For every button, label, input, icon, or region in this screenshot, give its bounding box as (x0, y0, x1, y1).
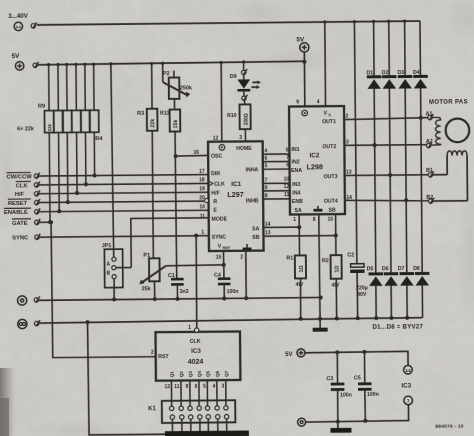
wire IC1 pin2 ground (240, 251, 248, 301)
svg-text:9: 9 (296, 99, 299, 105)
svg-text:100n: 100n (367, 392, 379, 398)
diode D7 BYV27 (398, 266, 415, 320)
jumper JP1 (100, 62, 131, 302)
svg-text:12: 12 (284, 184, 290, 190)
svg-text:12: 12 (213, 136, 219, 142)
svg-text:1: 1 (201, 230, 204, 236)
terminal 5V right (296, 36, 309, 52)
IC1 left pin numbers (193, 150, 205, 236)
svg-text:11: 11 (284, 192, 290, 198)
ground symbol main (313, 328, 328, 332)
capacitor C5 100n (354, 350, 379, 423)
svg-text:B: B (106, 271, 110, 277)
svg-text:Q3: Q3 (188, 371, 193, 378)
svg-text:100n: 100n (340, 393, 352, 399)
resistor array R9 (6x22k) label (17, 103, 103, 143)
svg-text:SA: SA (252, 226, 260, 232)
svg-text:4: 4 (264, 148, 267, 154)
capacitor C4 100n (214, 265, 239, 301)
terminal B1 (426, 168, 434, 178)
svg-text:Q7: Q7 (224, 370, 229, 377)
svg-text:D1...D8 = BYV27: D1...D8 = BYV27 (372, 323, 423, 330)
svg-text:DIR: DIR (211, 171, 220, 177)
wire SYNC to IC3 CLK (194, 234, 199, 329)
svg-text:R10: R10 (227, 113, 237, 119)
diode D8 BYV27 (413, 266, 430, 318)
diode D3 BYV27 (397, 21, 414, 272)
svg-text:1: 1 (188, 325, 191, 331)
svg-text:OUT2: OUT2 (322, 144, 336, 150)
svg-text:K1: K1 (148, 406, 156, 412)
svg-text:SA: SA (294, 208, 302, 214)
inductor motor winding A (431, 117, 441, 145)
svg-text:V: V (218, 244, 222, 250)
terminal 0 (logic ground) (17, 296, 39, 305)
svg-text:5: 5 (265, 163, 268, 169)
svg-text:4W: 4W (295, 282, 305, 288)
input ENABLE to IC1 E (4, 207, 209, 217)
wire MODE line from JP1 (131, 218, 209, 268)
wires pull-ups to input lines (47, 63, 97, 225)
svg-text:MODE: MODE (211, 216, 227, 222)
capacitor C2 220u 40V (345, 20, 368, 320)
svg-text:1Ω: 1Ω (299, 265, 305, 272)
wire OUT1 to A1 (344, 113, 428, 121)
terminal 3...40V supply (8, 13, 37, 31)
svg-text:R2: R2 (322, 258, 329, 264)
svg-text:4: 4 (213, 383, 216, 389)
wires IC3 outputs to K1 (171, 380, 226, 406)
svg-text:100n: 100n (227, 289, 239, 295)
wire IC2 pin1 SA down to R1 (293, 214, 299, 255)
wires K1 to bus bar (172, 419, 226, 432)
IC1-IC2 interconnect wire 4-5 IN1 (263, 147, 290, 154)
svg-text:R3: R3 (137, 111, 144, 117)
wire R10 to IC1 HOME pin 3 (239, 129, 245, 141)
input SYNC to IC1 SYNC (12, 232, 209, 241)
svg-text:7: 7 (265, 178, 268, 184)
input RESET to IC1 R (8, 197, 209, 207)
resistor R2 1R 4W (322, 255, 342, 321)
wire IC2 pin8 ground down (313, 214, 322, 327)
diode D2 BYV27 (381, 21, 398, 272)
IC1-IC2 interconnect wire 7-10 IN3 (263, 177, 290, 184)
svg-text:CLK: CLK (190, 339, 201, 345)
wire OUT2 to A2 (344, 139, 426, 148)
svg-text:3: 3 (239, 135, 242, 141)
terminal B2 (426, 195, 434, 204)
svg-text:E: E (213, 208, 217, 214)
input H/F to IC1 H/F (15, 189, 209, 198)
svg-text:ENB: ENB (292, 199, 303, 205)
svg-text:C3: C3 (326, 376, 333, 382)
svg-text:R9: R9 (38, 104, 45, 110)
input CLK to IC1 CLK (16, 180, 209, 189)
capacitor C3 100n (326, 350, 352, 424)
svg-text:IC1: IC1 (231, 181, 241, 188)
wire 0 line (39, 295, 323, 301)
svg-text:OSC: OSC (211, 154, 223, 160)
svg-text:4024: 4024 (188, 359, 204, 366)
svg-text:25k: 25k (142, 286, 151, 292)
svg-text:14: 14 (265, 222, 271, 228)
svg-text:D5: D5 (367, 266, 374, 272)
svg-text:D7: D7 (398, 266, 405, 272)
terminal 00 (power ground) (18, 319, 40, 328)
svg-text:OUT3: OUT3 (324, 174, 338, 180)
svg-text:CLK: CLK (214, 181, 225, 187)
svg-text:3: 3 (221, 383, 224, 389)
wire SB IC1 pin13 to R2 (263, 230, 337, 238)
svg-text:D9: D9 (230, 74, 237, 80)
label 884076-10 (435, 424, 463, 430)
svg-text:13: 13 (346, 169, 352, 175)
svg-text:3n3: 3n3 (180, 289, 189, 295)
svg-text:D8: D8 (413, 266, 420, 272)
diode D4 BYV27 (412, 21, 429, 272)
svg-text:40V: 40V (357, 292, 367, 298)
svg-text:GATE: GATE (12, 221, 28, 227)
svg-text:1: 1 (293, 217, 296, 223)
svg-text:10: 10 (284, 177, 290, 183)
svg-text:4: 4 (317, 99, 320, 105)
svg-text:9: 9 (186, 384, 189, 390)
svg-text:SYNC: SYNC (212, 234, 227, 240)
svg-text:R11: R11 (160, 111, 169, 117)
wire 3...40V rail (37, 21, 420, 25)
label D1...D8 = BYV27 (372, 323, 423, 330)
svg-text:IN1: IN1 (291, 147, 299, 153)
svg-text:220µ: 220µ (356, 285, 368, 291)
svg-text:22k: 22k (47, 123, 52, 131)
IC2 top pin numbers (296, 99, 320, 105)
svg-text:2: 2 (346, 114, 349, 120)
resistor R3 22k (137, 62, 159, 259)
svg-text:ENA: ENA (291, 168, 302, 174)
IC3 output labels Q1-Q7 (170, 370, 229, 377)
svg-text:5V: 5V (285, 352, 292, 358)
svg-text:INHA: INHA (246, 167, 259, 173)
svg-text:Q2: Q2 (179, 371, 184, 378)
svg-text:OUT4: OUT4 (324, 199, 338, 205)
wire OUT4 to B2 (345, 194, 429, 203)
svg-text:IC2: IC2 (309, 152, 319, 159)
terminal A2 (426, 139, 433, 149)
svg-text:6: 6 (264, 156, 267, 162)
svg-text:SB: SB (252, 235, 260, 241)
svg-text:11: 11 (174, 384, 180, 390)
wire 5V rail (38, 61, 305, 65)
terminal A1 (426, 111, 434, 120)
wire IC2 pin15 SB down to R2 (327, 214, 336, 255)
wire GATE to IC3 RST (49, 219, 156, 357)
svg-text:MOTOR PAS: MOTOR PAS (429, 99, 468, 105)
svg-text:14: 14 (405, 368, 411, 374)
svg-text:884076 - 10: 884076 - 10 (435, 424, 463, 430)
IC3 bottom pin numbers (164, 383, 224, 390)
resistor R11 15k (160, 99, 180, 132)
svg-text:D6: D6 (382, 266, 389, 272)
ground symbol IC3 section (330, 422, 351, 433)
svg-text:15k: 15k (173, 120, 179, 129)
input CW/CCW to IC1 DIR (7, 171, 209, 181)
IC1-IC2 interconnect wire 9-12 IN4 (263, 184, 290, 191)
svg-text:5V: 5V (12, 53, 21, 60)
svg-text:R: R (213, 199, 217, 205)
svg-text:6: 6 (286, 162, 289, 168)
svg-text:16: 16 (193, 150, 199, 156)
diode D5 BYV27 (367, 266, 384, 320)
svg-text:14: 14 (346, 195, 352, 201)
svg-text:9: 9 (265, 185, 268, 191)
scan shadow left bottom edge (0, 368, 16, 436)
svg-text:A: A (106, 262, 110, 268)
svg-text:C5: C5 (354, 375, 361, 381)
bus bar below K1 (165, 431, 249, 436)
svg-text:CW/CCW: CW/CCW (7, 174, 33, 180)
svg-text:INHB: INHB (246, 198, 259, 204)
svg-text:RST: RST (158, 354, 169, 360)
svg-text:H/F: H/F (15, 192, 25, 198)
svg-text:IC3: IC3 (401, 382, 411, 389)
svg-text:17: 17 (199, 169, 205, 175)
IC IC1 L297 (204, 141, 264, 251)
svg-text:7: 7 (286, 155, 289, 161)
pin circle 14 of IC3 (404, 365, 413, 374)
svg-text:H/F: H/F (211, 190, 219, 196)
svg-text:IN3: IN3 (292, 182, 300, 188)
svg-text:Q1: Q1 (170, 371, 175, 378)
potentiometer P2 250k (161, 61, 192, 99)
connector K1 (148, 400, 235, 423)
svg-text:SB: SB (328, 207, 336, 213)
svg-text:L297: L297 (227, 190, 243, 199)
input GATE stub (12, 219, 52, 227)
svg-text:RESET: RESET (8, 201, 28, 207)
terminal 5V left (12, 53, 39, 70)
svg-text:L298: L298 (307, 162, 323, 171)
svg-text:Q5: Q5 (205, 370, 210, 377)
svg-text:Q4: Q4 (197, 371, 202, 378)
IC IC2 L298 (289, 106, 345, 214)
capacitor C1 3n3 (168, 273, 189, 301)
pin circle 7 of IC3 (404, 396, 413, 405)
svg-text:18: 18 (199, 177, 205, 183)
svg-text:++: ++ (15, 25, 21, 31)
svg-text:Q6: Q6 (215, 370, 220, 377)
wire P1 wiper to VREF node (166, 263, 226, 268)
svg-text:10: 10 (199, 204, 205, 210)
IC1-IC2 interconnect wire 6-7 IN2 (263, 155, 290, 162)
svg-text:REF: REF (223, 246, 231, 250)
svg-text:330Ω: 330Ω (244, 113, 250, 125)
terminal 5V IC3 (285, 349, 305, 358)
potentiometer P1 25k (139, 253, 166, 302)
wire 00 rail to K1 bar (85, 320, 164, 435)
IC1 pin number 12 and 5V feed (212, 61, 223, 142)
wire IC1 pin15 VREF (216, 251, 224, 265)
svg-text:3: 3 (346, 139, 349, 145)
svg-text:CLK: CLK (16, 183, 29, 189)
svg-text:P2: P2 (163, 71, 170, 77)
svg-text:19: 19 (199, 186, 205, 192)
svg-text:7: 7 (407, 398, 410, 404)
resistor R10 330R (227, 100, 251, 129)
svg-text:6× 22k: 6× 22k (17, 126, 34, 132)
resistor R1 1R 4W (286, 255, 306, 321)
wire 0 to IC3 pin7 (305, 405, 408, 423)
svg-text:5: 5 (203, 384, 206, 390)
resistor array R4..R9 boxes (44, 110, 98, 132)
terminal 0 IC3 (298, 418, 306, 426)
svg-text:OUT1: OUT1 (322, 119, 336, 125)
LED D9 (230, 60, 262, 101)
svg-text:IC3: IC3 (191, 348, 201, 355)
IC1-IC2 interconnect wire 8-11 ENB (263, 192, 290, 199)
svg-text:12: 12 (164, 384, 170, 390)
svg-text:3...40V: 3...40V (8, 13, 29, 20)
wire 5V right drop to IC2 pin 9 (302, 52, 306, 106)
svg-text:JP1: JP1 (102, 243, 112, 249)
svg-text:IN4: IN4 (292, 190, 300, 196)
svg-text:13: 13 (265, 230, 271, 236)
wire OUT3 to B1 (345, 169, 429, 178)
wire diode column joins on supply rail (372, 20, 406, 23)
label MOTOR PAS (429, 99, 468, 105)
wire R11 to OSC and C1 (173, 131, 209, 278)
svg-text:15: 15 (327, 217, 333, 223)
IC1-IC2 interconnect wire 5-6 ENA (263, 162, 290, 169)
label IC3 supply (401, 382, 411, 389)
svg-text:C2: C2 (347, 252, 354, 258)
IC IC3 4024 (151, 324, 241, 380)
wire SA IC1 pin14 to R1 (263, 221, 301, 229)
svg-text:2: 2 (240, 255, 243, 261)
svg-text:SYNC: SYNC (12, 235, 29, 241)
svg-text:R1: R1 (286, 256, 293, 262)
svg-text:20: 20 (199, 195, 205, 201)
svg-text:R4: R4 (95, 136, 103, 142)
wire 3-40V to IC2 VS pin4 (323, 20, 327, 106)
svg-text:8: 8 (265, 193, 268, 199)
diode D1 BYV27 (366, 21, 383, 272)
svg-text:ENABLE: ENABLE (4, 210, 28, 216)
svg-text:2: 2 (151, 350, 154, 356)
inductor motor winding B (433, 151, 468, 201)
wire 5V to IC3 pin14 (305, 351, 408, 366)
svg-text:IN2: IN2 (291, 159, 299, 165)
svg-text:15: 15 (216, 255, 222, 261)
diode D6 BYV27 (382, 266, 399, 320)
svg-text:22k: 22k (150, 119, 156, 128)
motor rotor circle (446, 118, 470, 142)
svg-text:8: 8 (313, 217, 316, 223)
svg-text:5: 5 (286, 147, 289, 153)
svg-text:6: 6 (195, 384, 198, 390)
svg-text:250k: 250k (180, 85, 192, 91)
wire 00 ground rail (39, 318, 423, 324)
svg-text:HOME: HOME (236, 146, 252, 152)
svg-text:V: V (324, 111, 328, 117)
svg-text:1Ω: 1Ω (335, 266, 341, 273)
svg-text:11: 11 (200, 214, 206, 220)
